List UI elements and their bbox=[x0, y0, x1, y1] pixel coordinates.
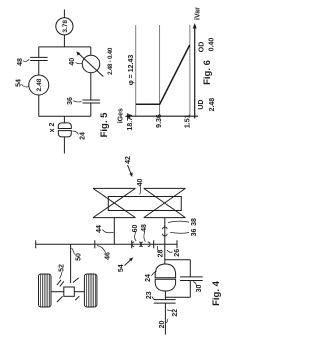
bearing tick shaft end bbox=[176, 240, 178, 248]
svg-text:Fig. 4: Fig. 4 bbox=[211, 280, 222, 306]
gridline 1.51 bbox=[189, 25, 191, 116]
axle drive shaft 50 bbox=[70, 244, 72, 283]
joint mark bbox=[60, 281, 64, 286]
svg-text:50: 50 bbox=[76, 253, 83, 261]
joint mark bbox=[73, 278, 79, 283]
svg-text:38: 38 bbox=[191, 218, 198, 226]
svg-text:26: 26 bbox=[174, 249, 181, 257]
clutch 30 output bbox=[189, 281, 191, 298]
svg-text:iVar: iVar bbox=[194, 7, 201, 20]
x axis iVar bbox=[194, 26, 196, 119]
svg-text:1.51: 1.51 bbox=[184, 114, 191, 128]
clutch 48 teeth on shaft bbox=[141, 242, 143, 247]
svg-text:3.78: 3.78 bbox=[62, 20, 69, 33]
final drive 24 right half bbox=[58, 123, 71, 129]
gear stage 54 (2.48) bbox=[29, 75, 49, 95]
main shaft bbox=[36, 243, 177, 245]
branch to clutch 30 bbox=[165, 259, 191, 261]
wire gear 54 to bottom bus bbox=[38, 95, 40, 116]
clutch 36 bbox=[83, 99, 101, 101]
wire clutch 48 to gear 54 bbox=[38, 61, 40, 75]
secondary shaft 38 bbox=[164, 218, 166, 264]
clutch 23 bbox=[154, 299, 176, 301]
primary pulley 40 bbox=[93, 217, 135, 219]
wire engine to junction bbox=[63, 35, 65, 47]
output shaft 20 bbox=[164, 303, 166, 335]
svg-text:46: 46 bbox=[105, 252, 112, 260]
bearing tick 60 bbox=[131, 240, 133, 248]
clutch teeth on shaft bbox=[132, 242, 134, 247]
svg-text:2.48: 2.48 bbox=[209, 98, 216, 112]
bearing tick bbox=[153, 240, 155, 248]
wire output shaft bbox=[63, 137, 65, 154]
svg-text:48: 48 bbox=[141, 224, 148, 232]
wheel 56 bbox=[39, 274, 52, 307]
joint mark bbox=[57, 296, 63, 302]
svg-text:φ = 12.43: φ = 12.43 bbox=[128, 55, 135, 86]
svg-text:40: 40 bbox=[137, 179, 144, 187]
wire top bus bbox=[39, 46, 91, 48]
svg-text:2.48: 2.48 bbox=[36, 78, 43, 91]
svg-text:22: 22 bbox=[172, 309, 179, 317]
svg-text:OD: OD bbox=[198, 42, 205, 53]
svg-text:20: 20 bbox=[159, 321, 166, 329]
ratio curve bbox=[136, 45, 190, 104]
joint mark bbox=[57, 280, 61, 285]
svg-text:52: 52 bbox=[59, 264, 66, 272]
dog clutch on secondary shaft bbox=[163, 234, 168, 236]
svg-text:Fig. 6: Fig. 6 bbox=[202, 60, 213, 85]
svg-text:24: 24 bbox=[145, 274, 152, 282]
svg-text:48: 48 bbox=[17, 58, 24, 66]
svg-text:24: 24 bbox=[80, 132, 87, 140]
final drive 24 left half bbox=[155, 279, 175, 291]
svg-text:2.48 - 0.40: 2.48 - 0.40 bbox=[107, 47, 114, 75]
shaft to clutch 23 bbox=[164, 291, 166, 300]
svg-text:0.40: 0.40 bbox=[209, 38, 216, 52]
svg-text:36: 36 bbox=[191, 229, 198, 237]
belt 40 bbox=[108, 197, 181, 211]
primary pulley shaft stub bbox=[113, 218, 115, 245]
svg-text:9.36: 9.36 bbox=[156, 114, 163, 128]
clutch 30 bbox=[180, 276, 203, 278]
variator 40 circle bbox=[82, 55, 100, 73]
gridline 9.36 bbox=[159, 25, 161, 116]
wire to clutch 48 bbox=[38, 47, 40, 58]
gridline 18.77 bbox=[135, 25, 137, 116]
svg-text:UD: UD bbox=[198, 100, 205, 110]
axle left segment bbox=[51, 291, 64, 293]
wheel 58 bbox=[84, 274, 97, 307]
joint mark bbox=[75, 296, 79, 300]
secondary pulley bbox=[144, 217, 186, 219]
wire junction to variator bbox=[90, 47, 92, 55]
wire input stub bbox=[63, 10, 65, 18]
svg-text:44: 44 bbox=[96, 225, 103, 233]
wire bottom bus bbox=[39, 115, 91, 117]
axle right segment bbox=[74, 291, 84, 293]
differential 52 bbox=[64, 287, 75, 296]
svg-text:Fig. 5: Fig. 5 bbox=[99, 112, 110, 138]
svg-text:18.77: 18.77 bbox=[127, 113, 134, 131]
final drive 24 right half bbox=[155, 264, 175, 278]
final drive 24 left half bbox=[58, 131, 71, 137]
svg-text:54: 54 bbox=[118, 264, 125, 272]
clutch 48 bbox=[30, 56, 47, 58]
wire clutch 36 to bottom bus bbox=[90, 103, 92, 116]
svg-text:60: 60 bbox=[132, 225, 139, 233]
bearing tick 46 bbox=[94, 240, 96, 248]
engine node 3.78 bbox=[56, 18, 73, 35]
svg-text:40: 40 bbox=[69, 58, 76, 66]
svg-text:23: 23 bbox=[146, 291, 153, 299]
svg-text:30: 30 bbox=[196, 285, 203, 293]
svg-text:x 2: x 2 bbox=[49, 123, 56, 133]
bearing tick bbox=[35, 240, 37, 248]
wire variator to clutch 36 bbox=[90, 73, 92, 100]
y axis iGes bbox=[127, 115, 198, 117]
wire bus to final drive 24 bbox=[63, 116, 65, 123]
svg-text:42: 42 bbox=[125, 156, 132, 164]
svg-text:54: 54 bbox=[15, 79, 22, 87]
variator 40 arrow bbox=[78, 53, 104, 77]
svg-text:iGes: iGes bbox=[117, 108, 124, 123]
